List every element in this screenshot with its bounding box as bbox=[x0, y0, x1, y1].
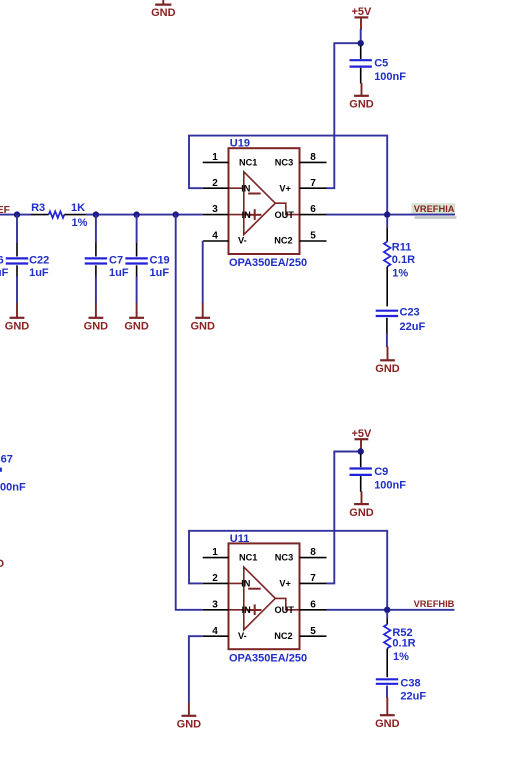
svg-text:IN: IN bbox=[241, 184, 251, 194]
svg-text:NC2: NC2 bbox=[274, 236, 292, 246]
ground GND (C5) bbox=[349, 83, 374, 111]
svg-text:V-: V- bbox=[238, 236, 247, 246]
net highlight VREFHIA bbox=[411, 203, 456, 219]
wire U19 OUT (pin 6) to VREFHIA bbox=[327, 214, 456, 216]
svg-text:NC2: NC2 bbox=[274, 631, 292, 641]
wire U19 pin 4 (V-) to ground bbox=[202, 241, 204, 304]
svg-text:GND: GND bbox=[84, 321, 109, 333]
svg-text:IN: IN bbox=[241, 579, 251, 589]
junction C5 tap bbox=[358, 40, 364, 46]
junction C9 tap bbox=[358, 448, 364, 454]
svg-text:V+: V+ bbox=[279, 579, 291, 589]
svg-text:GND: GND bbox=[151, 7, 176, 19]
capacitor C19 1uF bbox=[125, 215, 169, 304]
wire +5V junction to U11 pin 7 (V+) bbox=[327, 452, 361, 584]
junction C22 tap bbox=[14, 211, 20, 217]
svg-text:100nF: 100nF bbox=[374, 480, 406, 492]
svg-text:1%: 1% bbox=[72, 217, 88, 229]
junction R52 tap bbox=[384, 607, 390, 613]
svg-text:1uF: 1uF bbox=[150, 267, 170, 279]
svg-text:C5: C5 bbox=[374, 58, 388, 70]
svg-text:1%: 1% bbox=[393, 651, 409, 663]
svg-text:GND: GND bbox=[375, 363, 400, 375]
svg-text:4: 4 bbox=[212, 626, 218, 637]
wire +5V junction to U19 pin 7 (V+) bbox=[327, 43, 361, 188]
op-amp U19 bbox=[203, 138, 327, 270]
svg-text:NC3: NC3 bbox=[275, 157, 293, 167]
resistor R3 1K 1% bbox=[31, 202, 88, 229]
svg-text:V-: V- bbox=[238, 631, 247, 641]
svg-text:NC1: NC1 bbox=[239, 157, 257, 167]
svg-text:C22: C22 bbox=[29, 254, 49, 266]
power +5V (U19 supply) bbox=[351, 6, 372, 30]
wire U11 OUT (pin 6) to VREFHIB bbox=[327, 609, 455, 611]
svg-text:1K: 1K bbox=[71, 202, 85, 214]
svg-text:OUT: OUT bbox=[275, 210, 295, 220]
resistor R11 0.1R 1% bbox=[384, 217, 415, 306]
svg-text:OPA350EA/250: OPA350EA/250 bbox=[229, 652, 307, 664]
svg-text:6: 6 bbox=[310, 204, 316, 215]
junction branch to U11 bbox=[173, 211, 179, 217]
svg-text:2: 2 bbox=[212, 178, 218, 189]
svg-text:OPA350EA/250: OPA350EA/250 bbox=[229, 257, 307, 269]
svg-text:5: 5 bbox=[310, 626, 316, 637]
svg-text:R3: R3 bbox=[31, 202, 45, 214]
svg-text:7: 7 bbox=[310, 573, 316, 584]
svg-text:R11: R11 bbox=[392, 241, 412, 253]
svg-text:5: 5 bbox=[310, 231, 316, 242]
svg-text:GND: GND bbox=[349, 99, 374, 111]
ground GND (C9) bbox=[349, 491, 374, 519]
wire U19 OUT feedback to -IN (pin 2) bbox=[189, 136, 387, 215]
svg-text:6: 6 bbox=[0, 254, 4, 266]
svg-text:1uF: 1uF bbox=[109, 267, 129, 279]
wire +5V stub to junction (U11) bbox=[360, 448, 362, 452]
svg-text:3: 3 bbox=[212, 599, 218, 610]
svg-text:7: 7 bbox=[310, 178, 316, 189]
svg-text:8: 8 bbox=[310, 547, 316, 558]
ground GND (C19) bbox=[124, 303, 149, 333]
svg-text:IN: IN bbox=[242, 605, 252, 615]
svg-text:100nF: 100nF bbox=[0, 481, 26, 493]
svg-text:GND: GND bbox=[177, 719, 202, 731]
ground GND (C7) bbox=[84, 303, 109, 333]
svg-text:0.1R: 0.1R bbox=[392, 254, 415, 266]
svg-text:VREFHIB: VREFHIB bbox=[414, 599, 455, 609]
svg-text:GND: GND bbox=[124, 321, 149, 333]
power +5V (U11 supply) bbox=[351, 428, 372, 449]
svg-text:1: 1 bbox=[212, 547, 218, 558]
svg-text:OUT: OUT bbox=[275, 605, 295, 615]
ground (top edge, partial) bbox=[151, 0, 176, 19]
svg-text:C38: C38 bbox=[400, 677, 420, 689]
junction C19 tap bbox=[133, 211, 139, 217]
svg-text:C9: C9 bbox=[374, 466, 388, 478]
svg-text:GND: GND bbox=[190, 321, 215, 333]
capacitor (off-screen left, partial labels "6" / "uF") bbox=[0, 254, 9, 279]
junction C7 tap bbox=[93, 211, 99, 217]
svg-text:V+: V+ bbox=[279, 183, 291, 193]
svg-text:IN: IN bbox=[242, 210, 252, 220]
capacitor C5 100nF bbox=[350, 46, 407, 84]
svg-text:8: 8 bbox=[310, 152, 316, 163]
capacitor C9 100nF bbox=[350, 454, 407, 492]
capacitor (off-screen left, partial labels "67"/"00nF") bbox=[0, 454, 26, 494]
svg-text:GND: GND bbox=[0, 558, 4, 570]
ground GND (C23) bbox=[375, 347, 400, 376]
ground GND (C38) bbox=[375, 697, 400, 730]
wire VREF input to R3 bbox=[0, 214, 31, 216]
svg-text:C23: C23 bbox=[400, 307, 420, 319]
capacitor C23 22uF bbox=[376, 307, 426, 347]
resistor R52 0.1R 1% bbox=[384, 612, 416, 677]
ground GND (U19 V-) bbox=[190, 303, 215, 333]
svg-text:2: 2 bbox=[212, 573, 218, 584]
svg-text:GND: GND bbox=[349, 507, 374, 519]
svg-text:3: 3 bbox=[212, 204, 218, 215]
svg-text:NC1: NC1 bbox=[239, 553, 257, 563]
junction R11 tap bbox=[384, 211, 390, 217]
wire +5V stub to junction bbox=[360, 29, 362, 43]
svg-text:C67: C67 bbox=[0, 454, 13, 466]
svg-text:100nF: 100nF bbox=[374, 71, 406, 83]
wire R3 to U19 pin 3 (+IN) bbox=[86, 214, 203, 216]
svg-text:4: 4 bbox=[212, 231, 218, 242]
capacitor C7 1uF bbox=[85, 215, 129, 304]
wire U11 pin 4 (V-) to ground bbox=[189, 636, 203, 703]
ground GND (C22) bbox=[5, 303, 30, 333]
svg-text:22uF: 22uF bbox=[400, 690, 426, 702]
capacitor C22 1uF bbox=[6, 215, 49, 304]
svg-text:C19: C19 bbox=[150, 254, 170, 266]
svg-text:C7: C7 bbox=[109, 254, 123, 266]
op-amp U11 bbox=[203, 533, 327, 665]
svg-text:GND: GND bbox=[375, 718, 400, 730]
svg-text:VREFHIA: VREFHIA bbox=[414, 204, 455, 214]
svg-text:1uF: 1uF bbox=[29, 267, 49, 279]
svg-text:6: 6 bbox=[310, 599, 316, 610]
svg-text:1uF: 1uF bbox=[0, 267, 9, 279]
svg-text:1%: 1% bbox=[392, 268, 408, 280]
capacitor C38 22uF bbox=[376, 677, 427, 702]
svg-text:1: 1 bbox=[212, 152, 218, 163]
svg-text:GND: GND bbox=[5, 321, 30, 333]
svg-text:0.1R: 0.1R bbox=[392, 637, 415, 649]
svg-text:U11: U11 bbox=[230, 533, 250, 545]
svg-text:NC3: NC3 bbox=[275, 553, 293, 563]
wire VREF branch down to U11 pin 3 (+IN) bbox=[176, 215, 203, 610]
svg-text:U19: U19 bbox=[230, 138, 250, 150]
svg-text:22uF: 22uF bbox=[400, 321, 426, 333]
wire U11 OUT feedback to -IN (pin 2) bbox=[189, 531, 387, 610]
ground GND (U11 V-) bbox=[177, 702, 202, 730]
